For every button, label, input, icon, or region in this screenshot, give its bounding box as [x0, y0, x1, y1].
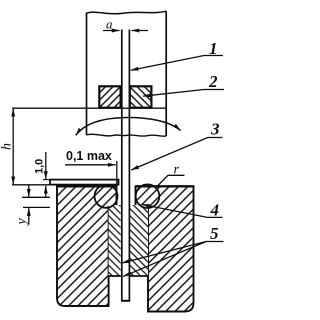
svg-text:1: 1	[209, 39, 218, 58]
svg-text:y: y	[15, 218, 30, 227]
svg-text:r: r	[174, 163, 180, 178]
svg-text:2: 2	[208, 72, 218, 91]
svg-text:4: 4	[210, 201, 220, 220]
svg-text:0,1 max: 0,1 max	[66, 149, 112, 163]
svg-text:h: h	[0, 143, 15, 150]
svg-text:a: a	[106, 17, 113, 32]
svg-text:5: 5	[210, 224, 219, 243]
svg-text:1,0: 1,0	[34, 159, 46, 174]
svg-text:3: 3	[210, 120, 220, 139]
